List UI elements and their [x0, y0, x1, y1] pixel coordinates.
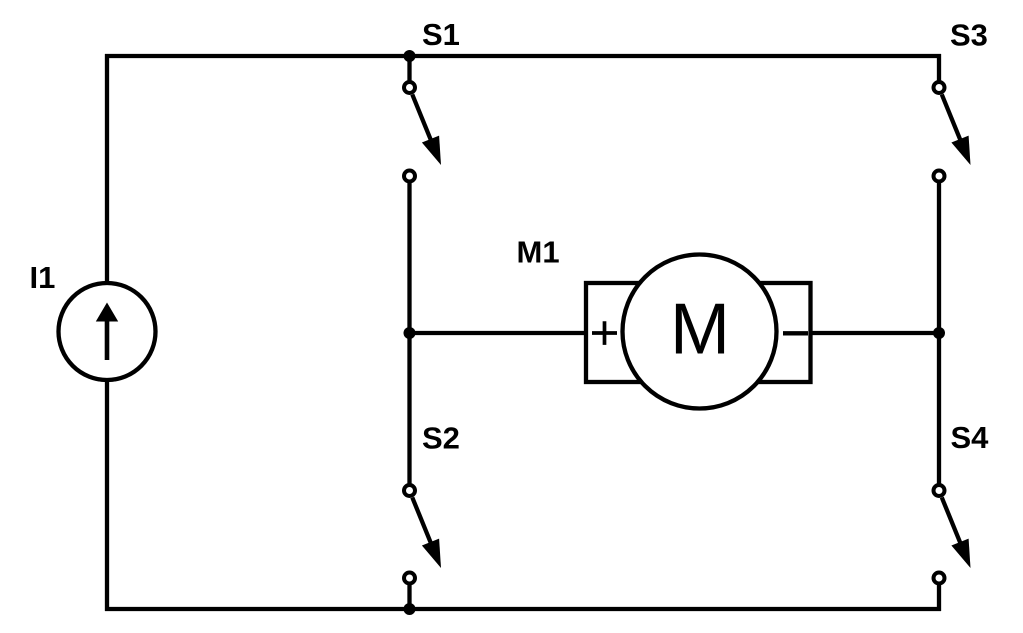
svg-text:S1: S1: [422, 17, 460, 52]
svg-text:S3: S3: [950, 18, 988, 53]
svg-text:M1: M1: [517, 235, 560, 270]
svg-text:I1: I1: [30, 260, 56, 295]
svg-text:S2: S2: [422, 420, 460, 455]
svg-text:M: M: [670, 290, 730, 370]
svg-text:S4: S4: [951, 420, 990, 455]
